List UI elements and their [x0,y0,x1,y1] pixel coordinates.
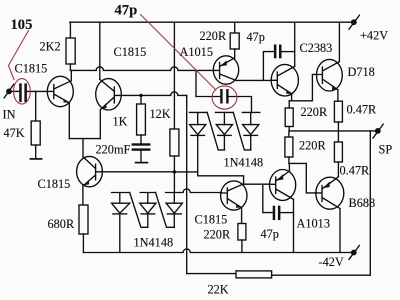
wire 47p bottom cap right lead [281,212,294,214]
resistor 0.47R (lower) [334,142,342,162]
wire IN to cap [12,90,20,92]
resistor 680R [79,205,88,234]
wire emitter node to D718 base [289,74,317,100]
wire 12K rail drop [173,22,175,129]
wire feedback vertical down to 22K [187,95,236,273]
svg-text:IN: IN [3,108,16,122]
svg-text:SP: SP [379,143,393,157]
wire C2383 collector to rail [294,22,296,66]
wire 1K top stub [140,95,142,104]
capacitor 47p (red circled, upper) [220,89,228,104]
terminal SP dot [375,128,381,134]
transistor Q6 D718 [317,59,343,91]
wire A1015 base net y=70.4 with hops [70,67,213,71]
wire branch down to 47p red cap [195,70,197,96]
svg-text:47K: 47K [4,126,25,140]
wire 0.47R to output node [337,122,339,142]
wire 220R#1 top stub [288,101,290,108]
svg-text:C1815: C1815 [114,45,147,59]
terminal IN dot [6,89,12,95]
svg-text:C1815: C1815 [195,213,228,227]
wire node to M1 tail corner [174,171,197,173]
wire 12K bottom to node [173,156,175,193]
wire Q2 base / feedback net with hop [121,92,187,96]
wire 0.47R#2 bottom to B688 emitter [337,162,339,177]
wire output SP line [289,130,375,132]
diode D1 1N4148 (bottom group left) [112,193,130,253]
wire diff pair emitter join [69,138,100,140]
wire 220R#2 bottom to node [288,157,290,163]
svg-text:220R: 220R [200,29,227,43]
svg-text:0.47R: 0.47R [347,103,378,117]
diode M1 1N4148 (middle group left) [189,112,207,175]
transistor Q3 C1815 [77,156,103,186]
diode M3 1N4148 (middle group right) [242,112,259,149]
wire to Q3 collector [82,139,84,157]
wire 220R to A1015 emitter [234,49,236,58]
wire C2383 emitter down [291,94,293,101]
wire connector M2-M3 [233,112,250,149]
transistor U3 A1015 [213,56,238,84]
junction node 1K top [139,94,142,97]
wire 220mF bottom stub [140,151,142,163]
wire 220R#1 bottom to output line [288,127,290,131]
diode D2 1N4148 (bottom group middle) [140,193,156,228]
wire Q3 base to node [102,171,174,173]
svg-text:A1015: A1015 [180,45,213,59]
svg-text:1K: 1K [113,115,128,129]
wire Q1 collector up [70,70,72,80]
resistor 220R (A1015 emitter) [230,33,239,49]
svg-text:220R: 220R [301,105,328,119]
svg-text:C1815: C1815 [15,62,48,76]
resistor 2K2 [66,38,75,64]
svg-text:+42V: +42V [360,29,388,43]
wire connector D1-D2 [130,193,148,228]
wire VAS collector net to diode chain [198,176,244,184]
wire B688 collector to rail [339,209,341,253]
wire Q3 emitter to 680R [82,186,84,205]
wire connector D2-D3 [156,193,175,228]
wire A1015 collector to C2383 base [236,79,271,81]
ground under 220mF [136,162,148,164]
terminal +42V dot [351,19,357,25]
terminal +42V slash [349,15,359,29]
junction node Q3 base / diodes [173,170,176,173]
wire VAS emitter to 220R [241,208,243,224]
terminal -42V dot [351,250,357,256]
ground under 47K [30,158,41,160]
svg-text:2K2: 2K2 [40,40,61,54]
transistor Q1 C1815 [47,76,73,106]
red ellipse around input capacitor [14,79,31,104]
svg-text:22K: 22K [208,283,229,297]
resistor 220R (right lower) [285,137,293,157]
wire node to A1013 emitter [288,163,290,171]
svg-text:0.47R: 0.47R [340,164,371,178]
wire 680R bottom to rail [82,234,84,253]
wire D718 emitter to 0.47R [337,90,339,101]
transistor Q2 C1815 [96,79,122,110]
svg-text:C2383: C2383 [300,41,333,55]
wire 2K2 bottom to node [69,64,71,70]
wire 220R top rail stub [234,22,236,33]
resistor 0.47R (upper) [334,101,342,122]
red callout line from 47p label [141,15,216,90]
wire 47K bottom stub [35,145,37,159]
wire node to B688 base [289,163,316,193]
transistor U4 C1815 VAS [221,181,247,210]
svg-text:47p: 47p [261,227,279,241]
resistor 220R (right upper) [285,108,293,127]
terminal SP slash [373,124,383,138]
diode D3 1N4148 (bottom group right) [166,193,183,228]
svg-text:-42V: -42V [319,255,344,269]
wire 47p bottom cap left branch [263,184,273,212]
wire VAS collector to A1013 base [244,183,270,185]
terminal -42V slash [349,245,359,259]
wire D718 collector to rail [338,22,340,61]
wire 220R bottom to rail [241,240,243,253]
svg-text:220R: 220R [299,139,326,153]
svg-text:220R: 220R [204,228,231,242]
svg-text:C1815: C1815 [38,177,71,191]
terminal IN slash [4,84,14,98]
wire 47K top stub [35,91,37,121]
resistor 220R (VAS emitter) [238,224,246,241]
svg-text:47p: 47p [115,2,138,18]
wire A1013 collector down to rail [293,200,295,253]
wire bottom -42V rail with hop [83,249,351,253]
wire VAS base from D3 with hop [179,189,221,193]
wire red cap right lead [229,97,252,113]
wire top +42V rail [70,21,351,23]
wire red cap left lead [196,96,220,98]
svg-text:12K: 12K [150,107,171,121]
svg-text:B688: B688 [349,196,376,210]
wire Q1 emitter down [68,103,70,139]
red ellipse around 47p capacitor [212,86,237,109]
wire B688 emitter stub [337,177,339,179]
red callout line from 105 label [9,31,29,80]
diode M2 1N4148 (middle group middle) [216,112,234,149]
transistor Q7 A1013 [270,170,296,201]
transistor Q8 B688 [316,177,344,209]
transistor Q5 C2383 [271,64,298,96]
svg-text:1N4148: 1N4148 [134,236,174,250]
svg-text:1N4148: 1N4148 [224,156,264,170]
wire Q2 collector drop from rail [99,22,101,79]
svg-text:680R: 680R [48,217,75,231]
wire 1K to 220mF [140,135,142,143]
svg-text:D718: D718 [348,65,375,79]
capacitor 220mF [132,143,151,150]
resistor 22K (horizontal) [236,271,272,278]
resistor 47K [31,121,40,145]
capacitor input (red circled) [19,83,27,102]
wire cap to Q1 base [27,90,48,92]
svg-text:220mF: 220mF [96,143,131,157]
svg-text:A1013: A1013 [297,217,330,231]
svg-text:47p: 47p [247,30,265,44]
wire 47p cap to C2383 collector line [282,51,295,53]
svg-text:105: 105 [11,17,33,33]
capacitor 47p (top) [274,45,282,59]
wire 220R#2 top stub [288,131,290,137]
capacitor 47p (bottom) [273,206,281,220]
wire connector M1-M2 [207,112,224,149]
wire 22K right vertical to SP line [272,131,371,275]
wire 47p top cap branch [263,52,273,81]
wire Q2 emitter down [99,110,101,139]
wire 2K2 top stub [69,22,71,38]
resistor 1K [137,104,146,135]
resistor 12K [170,129,179,156]
